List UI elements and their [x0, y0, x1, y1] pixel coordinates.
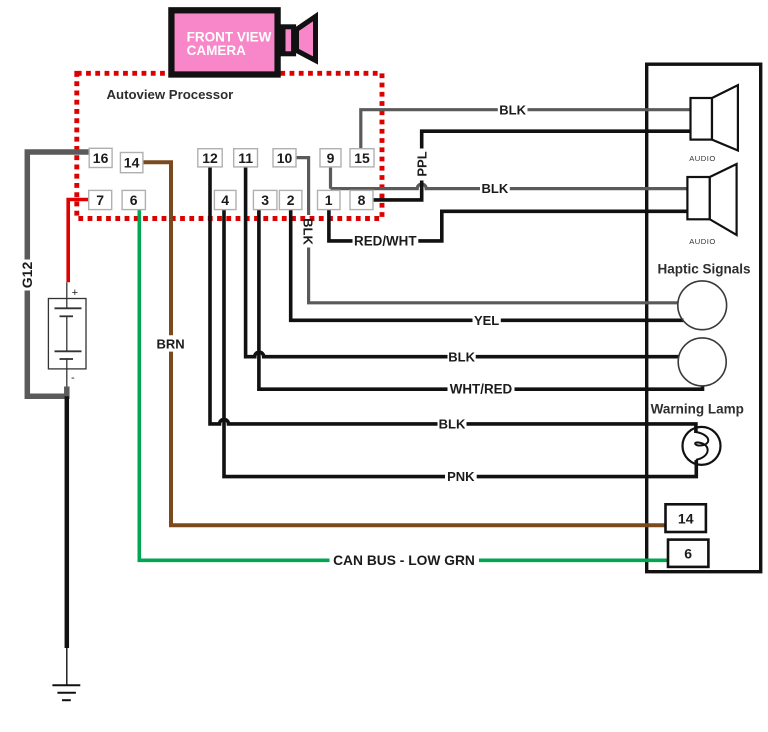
svg-text:1: 1 — [325, 192, 333, 208]
wire BLK gray from pin 10 to haptic circle 1 — [296, 158, 678, 303]
wire WHT/RED from pin 3 to haptic circle 2 bottom — [259, 210, 703, 390]
svg-text:2: 2 — [287, 192, 295, 208]
svg-text:15: 15 — [354, 150, 370, 166]
wire BLK from pin 11 to haptic circle 2 (hops pin 3 wire) — [246, 167, 679, 357]
wire RED/WHT from pin 1 to speaker 2 — [329, 210, 688, 241]
Autoview Processor dashed boundary — [77, 73, 382, 218]
svg-text:16: 16 — [93, 150, 109, 166]
svg-text:+: + — [72, 287, 78, 299]
wire PNK from pin 4 to warning lamp — [224, 210, 696, 477]
svg-text:AUDIO: AUDIO — [689, 237, 716, 246]
connector pin 4 — [214, 190, 236, 209]
module pin 6 — [668, 540, 708, 567]
wire red from pin 7 to battery positive — [68, 200, 89, 283]
wire BLK gray from pin 9 to speaker 2 (hopped by gray over PPL) — [331, 167, 688, 189]
speaker 1 cone — [712, 85, 738, 150]
svg-text:RED/WHT: RED/WHT — [354, 234, 417, 249]
svg-text:-: - — [71, 372, 75, 384]
front view camera lens neck — [283, 27, 294, 54]
svg-text:14: 14 — [124, 155, 140, 171]
wire G12 gray from pin 16 to battery negative junction — [27, 152, 89, 396]
svg-text:9: 9 — [327, 150, 335, 166]
svg-text:AUDIO: AUDIO — [689, 154, 716, 163]
svg-text:CAN BUS - LOW GRN: CAN BUS - LOW GRN — [333, 553, 475, 568]
warning lamp filament — [695, 432, 708, 460]
front view camera horn — [297, 17, 316, 61]
wire BLK from pin 12 to warning lamp (hops pin 4 wire) — [210, 167, 696, 433]
connector pin 9 — [320, 149, 341, 167]
svg-text:BLK: BLK — [482, 181, 509, 196]
svg-text:BLK: BLK — [439, 416, 466, 431]
svg-text:7: 7 — [96, 192, 104, 208]
svg-text:12: 12 — [202, 150, 218, 166]
svg-text:BRN: BRN — [157, 337, 185, 352]
haptic circle 1 — [678, 281, 727, 330]
connector pin 6 — [122, 190, 145, 209]
ground — [52, 684, 80, 686]
connector pin 1 — [318, 190, 341, 209]
svg-text:YEL: YEL — [474, 313, 499, 328]
svg-text:Haptic Signals: Haptic Signals — [657, 262, 750, 277]
connector pin 7 — [89, 190, 112, 209]
module pin 14 — [666, 504, 706, 532]
speaker 1 driver — [691, 98, 713, 140]
svg-text:WHT/RED: WHT/RED — [450, 382, 513, 397]
connector pin 12 — [198, 149, 222, 167]
svg-text:4: 4 — [221, 192, 229, 208]
svg-text:3: 3 — [261, 192, 269, 208]
haptic circle 2 — [678, 338, 726, 386]
speaker 2 cone — [710, 164, 737, 235]
svg-text:BLK: BLK — [301, 218, 316, 245]
svg-text:PPL: PPL — [415, 151, 430, 176]
module box (right component enclosure) — [647, 64, 761, 572]
svg-text:8: 8 — [358, 192, 366, 208]
svg-text:G12: G12 — [19, 262, 35, 289]
warning lamp bulb — [683, 427, 721, 465]
connector pin 16 — [89, 148, 112, 167]
wire PPL from pin 8 to speaker 1 — [373, 131, 691, 200]
svg-text:6: 6 — [130, 192, 138, 208]
speaker 2 driver — [687, 177, 709, 219]
connector pin 3 — [253, 190, 277, 209]
svg-text:Warning Lamp: Warning Lamp — [651, 402, 744, 417]
svg-text:11: 11 — [238, 150, 253, 166]
svg-text:10: 10 — [277, 150, 293, 166]
wire green CAN BUS from pin 6 to module pin 6 — [139, 210, 668, 561]
wire black battery negative to ground — [65, 396, 70, 648]
connector pin 14 — [120, 153, 142, 173]
wire brown BRN from pin 14 to module pin 14 — [143, 162, 666, 525]
connector pin 15 — [350, 149, 374, 167]
svg-text:CAMERA: CAMERA — [187, 43, 246, 58]
wire YEL from pin 2 to haptic circle 1 — [291, 210, 684, 321]
battery G12 — [48, 299, 86, 369]
connector pin 11 — [234, 149, 258, 167]
connector pin 10 — [273, 149, 296, 167]
svg-text:BLK: BLK — [499, 102, 526, 117]
front view camera body — [171, 10, 277, 74]
svg-text:14: 14 — [678, 511, 694, 527]
svg-text:Autoview Processor: Autoview Processor — [107, 87, 234, 102]
svg-text:6: 6 — [684, 546, 692, 562]
connector pin 8 — [350, 190, 373, 209]
svg-text:BLK: BLK — [448, 349, 475, 364]
wire BLK gray from pin 15 to speaker 1 — [361, 110, 691, 149]
connector pin 2 — [279, 190, 302, 209]
battery lead positive thin — [66, 282, 68, 308]
svg-text:PNK: PNK — [447, 469, 475, 484]
